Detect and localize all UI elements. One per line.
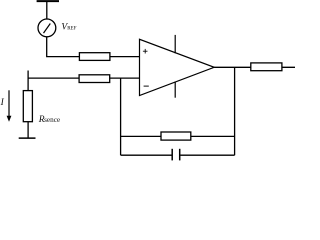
slash inside VREF source bbox=[44, 24, 51, 34]
op-amp U1 (triangle) bbox=[140, 39, 215, 95]
wire: capacitor branch left bbox=[121, 154, 172, 156]
op-amp positive supply pin bbox=[174, 35, 176, 53]
terminal bar (top supply rail for VREF) bbox=[37, 0, 59, 2]
wire: op-amp output to right edge (through R3) bbox=[214, 66, 295, 68]
wire: feedback resistor branch bbox=[121, 135, 235, 137]
resistor R3 (output) bbox=[251, 63, 282, 71]
resistor R4 (feedback) bbox=[161, 132, 191, 140]
resistor RSENCE (vertical box) bbox=[23, 91, 32, 122]
wire: capacitor branch right bbox=[180, 154, 234, 156]
wire: left input node vertical (current input) bbox=[27, 71, 29, 139]
wire: bar to VREF source top bbox=[46, 1, 48, 19]
wire: left node to inverting input (horizontal, through R2) bbox=[28, 77, 139, 79]
capacitor C1 right plate bbox=[179, 149, 181, 161]
resistor R1 (top, to non-inverting input) bbox=[79, 53, 110, 61]
svg-text:Rsence: Rsence bbox=[38, 115, 60, 125]
voltage source VREF (circle with slash) bbox=[38, 19, 56, 37]
resistor R2 (to inverting input) bbox=[79, 75, 110, 83]
ground (bar under RSENCE) bbox=[19, 137, 36, 139]
op-amp negative supply pin bbox=[174, 82, 176, 98]
current arrow I bbox=[8, 90, 10, 117]
plus sign (non-inverting input) bbox=[143, 50, 148, 52]
wire: feedback right vertical (from output node down) bbox=[234, 67, 236, 155]
minus sign (inverting input) bbox=[144, 85, 149, 87]
wire: VREF source bottom down to corner and right (node to R1) bbox=[47, 37, 140, 57]
capacitor C1 left plate bbox=[171, 149, 173, 161]
wire: feedback left vertical (from inverting node down) bbox=[120, 78, 122, 155]
